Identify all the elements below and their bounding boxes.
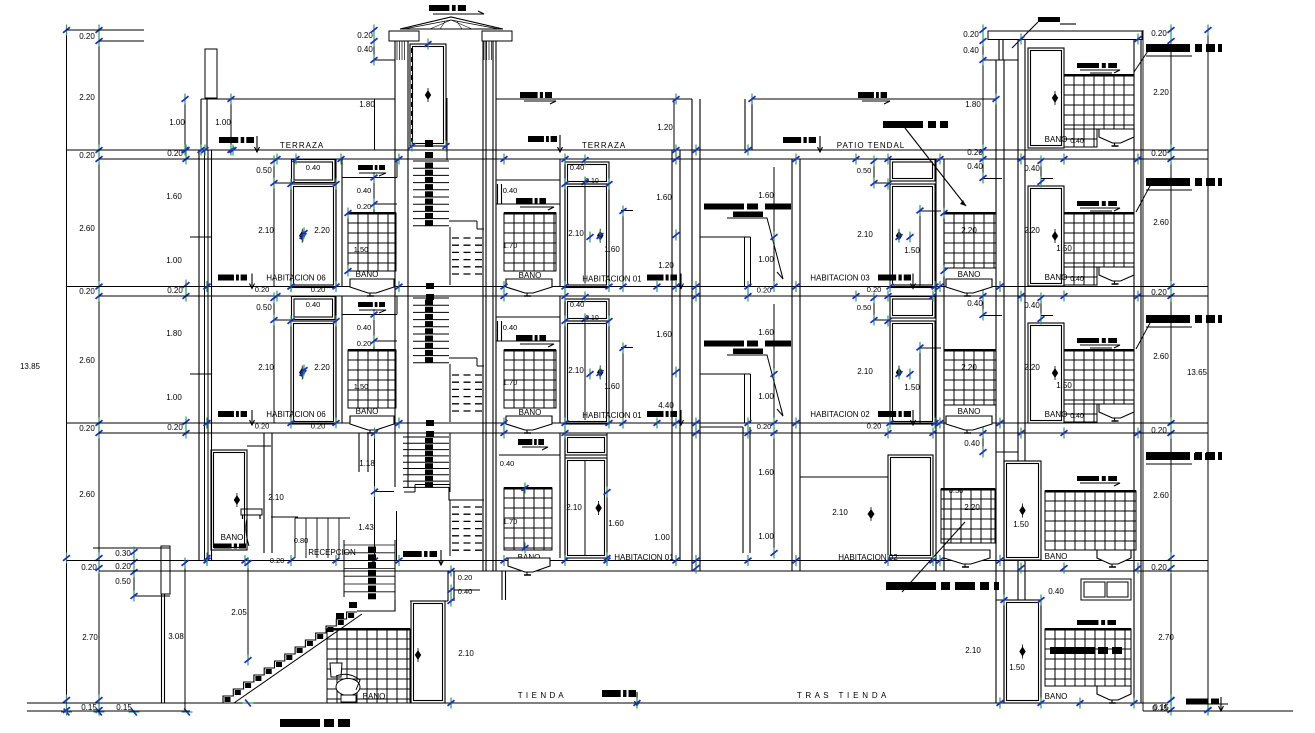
ground floor line — [27, 702, 1168, 704]
bath tile hatch — [1064, 75, 1134, 129]
svg-text:0.20: 0.20 — [1151, 426, 1167, 435]
left exterior wall — [198, 150, 200, 561]
stair base tag — [403, 551, 437, 557]
svg-text:1.70: 1.70 — [503, 241, 518, 250]
roof label underline arrow — [433, 11, 484, 14]
svg-text:0.20: 0.20 — [79, 424, 95, 433]
patio parapet wall right side — [744, 99, 746, 150]
door leaf line D — [584, 461, 586, 555]
dashed line in tower door — [411, 48, 413, 142]
wall between hab06 and bath — [335, 296, 337, 423]
sink fixture — [1099, 129, 1134, 146]
door hab01 — [565, 321, 609, 424]
left chain ticks — [96, 25, 103, 36]
svg-text:1.80: 1.80 — [359, 100, 375, 109]
top right label — [1038, 17, 1060, 22]
tag bath01 — [516, 335, 546, 341]
wall D — [559, 433, 561, 558]
svg-text:0.20: 0.20 — [255, 285, 270, 294]
hanging wall over bath door — [447, 571, 449, 601]
svg-text:0.20: 0.20 — [458, 573, 473, 582]
svg-text:HABITACION 03: HABITACION 03 — [810, 274, 870, 283]
svg-text:0.20: 0.20 — [757, 422, 772, 431]
svg-text:BANO: BANO — [1045, 552, 1068, 561]
svg-text:0.50: 0.50 — [115, 577, 131, 586]
long annotation blob patio — [883, 121, 948, 128]
svg-text:1.70: 1.70 — [503, 378, 518, 387]
stair tower left wall — [394, 41, 396, 487]
stair tower pilaster hatching left — [396, 41, 398, 60]
svg-text:HABITACION 02: HABITACION 02 — [810, 410, 870, 419]
recepcion steps — [294, 518, 296, 558]
leader tag to tile row C — [1136, 323, 1150, 349]
svg-text:0.20: 0.20 — [867, 422, 882, 431]
svg-text:1.50: 1.50 — [904, 246, 920, 255]
stair flight row D — [403, 436, 449, 438]
wall basin beside bath door — [241, 509, 262, 546]
left wall ledge — [161, 546, 170, 594]
stair notch — [449, 220, 477, 222]
svg-text:1.50: 1.50 — [1009, 663, 1025, 672]
sink hab01 bath — [506, 279, 552, 296]
bath01 wall nib — [497, 184, 499, 204]
second floor slab — [67, 422, 1209, 424]
bath tile hab06 — [348, 350, 396, 408]
svg-text:2.60: 2.60 — [1153, 218, 1169, 227]
svg-text:1.60: 1.60 — [758, 468, 774, 477]
lower squares — [426, 283, 434, 289]
tile level tag — [1077, 201, 1117, 206]
svg-text:1.60: 1.60 — [758, 191, 774, 200]
floor tag hab06 — [218, 411, 247, 417]
recepcion step line — [271, 516, 298, 518]
dim line 1.60 hab01 — [622, 211, 624, 287]
svg-text:HABITACION 01: HABITACION 01 — [582, 411, 642, 420]
bath corridor wall — [995, 60, 997, 703]
svg-text:1.00: 1.00 — [169, 118, 185, 127]
svg-text:1.43: 1.43 — [358, 523, 374, 532]
svg-text:HABITACION 01: HABITACION 01 — [582, 275, 642, 284]
long tag right of level1 — [1150, 453, 1214, 460]
habitacion 01 right wall — [671, 150, 673, 561]
svg-text:0.40: 0.40 — [357, 186, 372, 195]
svg-text:BANO: BANO — [1045, 410, 1068, 419]
svg-text:2.20: 2.20 — [961, 363, 977, 372]
svg-text:BANO: BANO — [356, 407, 379, 416]
svg-text:2.70: 2.70 — [1158, 633, 1174, 642]
tag bath01 — [516, 198, 546, 204]
door hab01 — [565, 184, 609, 288]
arrow tag hab06 bath — [358, 302, 385, 307]
svg-text:1.60: 1.60 — [758, 328, 774, 337]
tag above tile ground — [1077, 620, 1116, 625]
bath hab06 transom box — [342, 314, 397, 316]
left sub-dimension line — [133, 550, 135, 600]
door hab02 D (no marker) — [888, 455, 933, 558]
svg-text:1.00: 1.00 — [758, 532, 774, 541]
wall between hab06 and bath — [335, 159, 337, 287]
right tower left wall upper — [1017, 39, 1019, 461]
svg-text:0.40: 0.40 — [1070, 413, 1084, 420]
svg-text:1.00: 1.00 — [758, 392, 774, 401]
svg-text:BANO: BANO — [221, 533, 244, 542]
svg-text:BANO: BANO — [1045, 692, 1068, 701]
parapet top level tag — [520, 92, 552, 98]
patio floor tag — [783, 137, 816, 143]
svg-text:1.00: 1.00 — [758, 255, 774, 264]
wall right of bath D — [263, 433, 265, 553]
left dimension chain line outer — [66, 30, 68, 712]
patio annotation text (illegible) — [704, 204, 791, 210]
svg-text:1.50: 1.50 — [1056, 244, 1072, 253]
arrow tag hab06 bath — [358, 165, 385, 170]
parapet top line patio — [752, 98, 996, 100]
toilet — [330, 663, 360, 702]
stair flight row B — [413, 160, 449, 162]
svg-text:0.40: 0.40 — [570, 300, 585, 309]
bath tile hab06 — [348, 213, 396, 271]
bath door — [1028, 48, 1064, 148]
first floor slab — [67, 560, 1209, 562]
patio dim line — [773, 304, 775, 423]
svg-text:2.10: 2.10 — [458, 649, 474, 658]
ground floor left wall — [161, 594, 163, 703]
svg-text:0.20: 0.20 — [270, 556, 285, 565]
terraza floor label — [219, 137, 254, 143]
svg-text:2.10: 2.10 — [832, 508, 848, 517]
svg-text:0.20: 0.20 — [79, 287, 95, 296]
bottom centre tag — [280, 719, 350, 727]
door transom hab01 — [565, 162, 609, 184]
patio parapet tag — [858, 92, 887, 98]
svg-text:2.20: 2.20 — [964, 503, 980, 512]
big staircase lower flight — [223, 612, 357, 703]
stair tower pilaster hatching right — [483, 41, 485, 60]
shaft ledge — [700, 373, 751, 375]
svg-text:BANO: BANO — [1045, 273, 1068, 282]
transom hab02 — [890, 160, 935, 182]
svg-text:BANO: BANO — [356, 270, 379, 279]
sink small bath — [946, 416, 992, 433]
lower squares — [426, 420, 434, 426]
svg-text:0.40: 0.40 — [967, 299, 983, 308]
svg-text:0.50: 0.50 — [857, 303, 872, 312]
bath hab06 transom box — [342, 177, 397, 179]
svg-text:2.20: 2.20 — [961, 226, 977, 235]
hanging wall tienda entrance — [501, 571, 503, 600]
right chain ticks — [1168, 25, 1175, 36]
svg-text:0.15: 0.15 — [1153, 703, 1169, 712]
ground line right extension — [1143, 710, 1293, 712]
svg-text:1.00: 1.00 — [215, 118, 231, 127]
svg-text:TERRAZA: TERRAZA — [280, 141, 324, 150]
svg-text:1.50: 1.50 — [354, 382, 369, 391]
bath tile hatch — [1064, 213, 1134, 267]
svg-text:1.18: 1.18 — [359, 459, 375, 468]
svg-text:2.10: 2.10 — [568, 366, 584, 375]
bath floor tag D — [214, 544, 246, 549]
right facade extension line — [1142, 30, 1144, 711]
leader from patio label to bath tile — [905, 128, 966, 206]
shaft ledge — [700, 236, 751, 238]
svg-text:0.40: 0.40 — [503, 186, 518, 195]
svg-text:1.60: 1.60 — [608, 519, 624, 528]
floor tag hab02 — [878, 275, 911, 281]
door hab06 — [291, 321, 336, 424]
dim line 1.80 left tower — [374, 99, 376, 150]
svg-text:0.20: 0.20 — [357, 339, 372, 348]
tower stair treads top — [425, 140, 433, 147]
leader on roof bath — [1134, 48, 1150, 72]
svg-text:1.70: 1.70 — [503, 517, 518, 526]
svg-text:2.20: 2.20 — [1153, 88, 1169, 97]
transom D — [565, 435, 607, 455]
patio annotation text (illegible) — [704, 341, 791, 347]
svg-text:0.80: 0.80 — [294, 536, 309, 545]
svg-text:1.60: 1.60 — [604, 382, 620, 391]
door transom hab06 — [292, 297, 336, 320]
terraza parapet wall left — [200, 99, 202, 150]
right dimension chain line inner — [1170, 30, 1172, 710]
svg-text:2.20: 2.20 — [1024, 226, 1040, 235]
svg-text:2.10: 2.10 — [857, 230, 873, 239]
svg-text:2.05: 2.05 — [231, 608, 247, 617]
svg-text:2.60: 2.60 — [79, 356, 95, 365]
sink small bath — [946, 279, 992, 296]
sink ground — [1097, 686, 1131, 703]
hatch lower extension — [1064, 267, 1097, 285]
svg-text:BANO: BANO — [1045, 135, 1068, 144]
svg-text:0.20: 0.20 — [167, 423, 183, 432]
svg-text:2.20: 2.20 — [1024, 363, 1040, 372]
svg-text:0.40: 0.40 — [1070, 276, 1084, 283]
chimney above left parapet — [205, 49, 217, 98]
small bath tile D — [941, 489, 995, 543]
partition line left of door niche — [273, 296, 275, 423]
wall stub above recepcion — [358, 433, 360, 472]
svg-text:BANO: BANO — [958, 270, 981, 279]
svg-text:2.70: 2.70 — [82, 633, 98, 642]
svg-text:0.20: 0.20 — [1151, 29, 1167, 38]
svg-text:2.60: 2.60 — [1153, 352, 1169, 361]
tile small bath — [944, 350, 996, 405]
roof slab left dim extension — [67, 29, 145, 31]
patio leader line — [727, 218, 783, 279]
svg-text:0.40: 0.40 — [458, 587, 473, 596]
svg-text:0.20: 0.20 — [963, 30, 979, 39]
svg-text:0.20: 0.20 — [115, 562, 131, 571]
svg-text:1.20: 1.20 — [657, 123, 673, 132]
wall bath01/hab01 — [559, 296, 561, 423]
svg-text:0.40: 0.40 — [570, 163, 585, 172]
dim line 1.20 terrace right — [673, 99, 675, 150]
tile small bath — [944, 213, 996, 268]
right dimension chain line outer — [1207, 30, 1209, 710]
habitacion 02 right wall — [935, 159, 937, 571]
wall stub below right tower slab — [998, 40, 1000, 61]
parapet top line middle terrace — [496, 98, 692, 100]
svg-text:0.40: 0.40 — [357, 45, 373, 54]
sink fixture — [1099, 267, 1134, 284]
leader to bath D — [902, 522, 965, 592]
staircase upper flight — [343, 540, 345, 597]
svg-text:0.40: 0.40 — [963, 46, 979, 55]
patio wall D — [742, 427, 744, 553]
svg-text:1.60: 1.60 — [604, 245, 620, 254]
right tower right wall — [1133, 39, 1135, 703]
bath tile hatch — [1064, 350, 1134, 404]
ground dimension baseline left — [27, 710, 190, 712]
svg-text:0.40: 0.40 — [306, 300, 321, 309]
stair notch — [449, 357, 477, 359]
dim line mid D — [374, 431, 376, 561]
svg-text:2.10: 2.10 — [965, 646, 981, 655]
svg-text:HABITACION 06: HABITACION 06 — [266, 274, 326, 283]
stair tower roof slab caps — [389, 31, 419, 41]
svg-text:0.20: 0.20 — [79, 32, 95, 41]
svg-text:0.50: 0.50 — [256, 166, 272, 175]
svg-text:PATIO TENDAL: PATIO TENDAL — [837, 141, 905, 150]
sink hab01 bath — [506, 416, 552, 433]
svg-text:T R A S T I E N D A: T R A S T I E N D A — [797, 691, 887, 700]
svg-text:2.10: 2.10 — [258, 226, 274, 235]
floor tag hab06 — [218, 275, 247, 281]
junction ticks — [202, 145, 209, 156]
door transom hab06 — [292, 160, 336, 183]
bath door — [1028, 323, 1064, 423]
flight edge line — [449, 364, 451, 422]
bath door ground — [1004, 600, 1041, 703]
left dimension chain line inner — [98, 30, 100, 712]
left exterior wall inner line b — [207, 150, 209, 561]
landing — [357, 600, 395, 611]
sink hab06 bath — [350, 279, 394, 296]
svg-text:3.08: 3.08 — [168, 632, 184, 641]
door ground bath — [411, 601, 445, 703]
right chain bottom tag — [1186, 699, 1219, 704]
tile level tag — [1077, 63, 1117, 68]
habitacion 02 left wall — [791, 159, 793, 571]
dim line 1.50 — [919, 211, 921, 287]
door bath recepcion — [211, 450, 247, 550]
hatch lower extension — [1064, 404, 1097, 422]
bath tile hab01 — [504, 350, 556, 408]
door leaf line — [584, 323, 586, 420]
patio shaft left wall — [691, 99, 693, 571]
svg-text:TERRAZA: TERRAZA — [582, 141, 626, 150]
lower flight dashed — [452, 237, 484, 239]
svg-text:0.40: 0.40 — [1070, 138, 1084, 145]
bath tile ground — [1045, 629, 1131, 686]
door hab01 D — [565, 458, 607, 558]
svg-text:0.20: 0.20 — [81, 563, 97, 572]
door leaf line — [584, 186, 586, 284]
svg-text:0.20: 0.20 — [167, 286, 183, 295]
parapet top line left terrace — [201, 98, 395, 100]
svg-text:2.20: 2.20 — [79, 93, 95, 102]
svg-text:2.10: 2.10 — [568, 229, 584, 238]
door hab02 — [890, 321, 935, 424]
ground bath tile — [327, 629, 410, 703]
bath01 wall nib — [497, 321, 499, 341]
tower interior line — [446, 98, 448, 160]
flight edge line — [449, 227, 451, 285]
svg-text:4.40: 4.40 — [658, 401, 674, 410]
svg-text:BANO: BANO — [958, 407, 981, 416]
tile tag level 1 — [1077, 476, 1117, 481]
staircase stringer diagonal — [234, 614, 362, 703]
sink fixture — [1099, 404, 1134, 421]
dim line 1.50 — [919, 348, 921, 424]
bath door — [1028, 186, 1064, 286]
patio dim line — [773, 167, 775, 287]
patio leader line — [727, 355, 783, 416]
stair flight row C — [413, 297, 449, 299]
stair tower right wall — [482, 41, 484, 571]
svg-text:2.60: 2.60 — [79, 224, 95, 233]
svg-text:0.40: 0.40 — [1024, 164, 1040, 173]
stair tower gable roof — [400, 17, 503, 29]
sink small D — [944, 550, 990, 567]
svg-text:0.40: 0.40 — [964, 439, 980, 448]
roof label (illegible) — [429, 5, 466, 11]
svg-text:2.10: 2.10 — [566, 503, 582, 512]
bath tile hab01 — [504, 213, 556, 271]
third floor slab — [67, 286, 1209, 288]
wall bath01/hab01 — [559, 159, 561, 287]
svg-text:0.40: 0.40 — [967, 162, 983, 171]
svg-text:0.20: 0.20 — [357, 202, 372, 211]
tag TRAS TIENDA leader — [886, 582, 999, 590]
landing step outline row D — [449, 487, 484, 500]
row D lower dashed flight — [452, 506, 484, 508]
svg-text:2.10: 2.10 — [268, 493, 284, 502]
svg-text:HABITACION 06: HABITACION 06 — [266, 410, 326, 419]
tile level tag — [1077, 338, 1117, 343]
svg-text:1.60: 1.60 — [656, 330, 672, 339]
bath door level 1 — [1004, 461, 1041, 560]
tienda level tag — [602, 690, 636, 697]
bath tile D — [504, 488, 552, 550]
terraza floor tag mid — [528, 136, 557, 142]
svg-text:1.00: 1.00 — [166, 393, 182, 402]
left exterior wall inner line a — [204, 150, 206, 561]
sink D — [508, 558, 550, 575]
door hab06 — [291, 184, 336, 288]
svg-text:0.40: 0.40 — [1024, 301, 1040, 310]
svg-text:0.20: 0.20 — [311, 422, 326, 431]
window boxes ground tower — [1081, 579, 1131, 600]
middle unit left wall — [492, 41, 494, 571]
svg-text:1.20: 1.20 — [658, 261, 674, 270]
svg-text:BANO: BANO — [363, 692, 386, 701]
sink hab06 bath — [350, 416, 394, 433]
svg-text:1.00: 1.00 — [166, 256, 182, 265]
lower flight dashed — [452, 374, 484, 376]
svg-text:1.60: 1.60 — [166, 192, 182, 201]
svg-text:HABITACION 02: HABITACION 02 — [838, 553, 898, 562]
bath tile hatch level 1 — [1045, 491, 1136, 550]
svg-text:1.50: 1.50 — [354, 245, 369, 254]
door transom hab01 — [565, 299, 609, 321]
svg-text:0.40: 0.40 — [503, 323, 518, 332]
dim line 1.60 hab01 — [622, 348, 624, 423]
sink level 1 — [1097, 550, 1131, 567]
lintel over bath door D — [247, 445, 271, 447]
stair tower window — [410, 44, 446, 146]
svg-text:2.20: 2.20 — [314, 363, 330, 372]
tag 0.40 D — [518, 439, 544, 445]
